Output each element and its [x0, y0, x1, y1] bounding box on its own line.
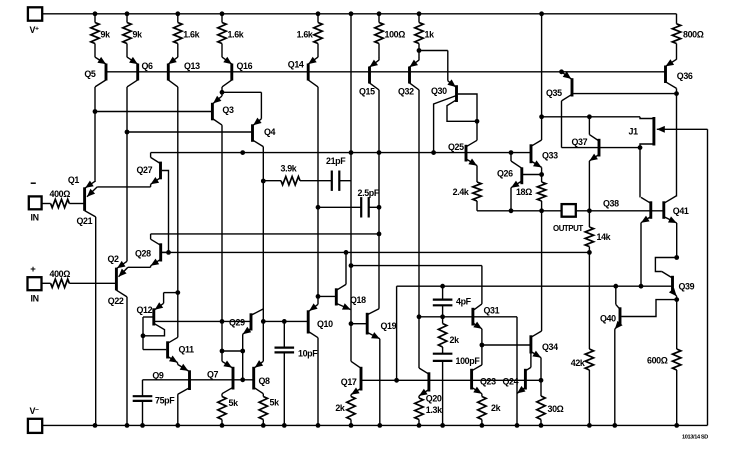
svg-text:Q41: Q41: [673, 206, 689, 216]
svg-text:2.5pF: 2.5pF: [358, 188, 380, 198]
svg-text:Q39: Q39: [679, 282, 695, 292]
svg-text:Q25: Q25: [448, 142, 464, 152]
svg-text:Q10: Q10: [317, 319, 333, 329]
svg-text:2k: 2k: [335, 403, 345, 413]
svg-text:42k: 42k: [571, 358, 585, 368]
svg-text:400Ω: 400Ω: [50, 189, 71, 199]
svg-text:30Ω: 30Ω: [548, 404, 564, 414]
svg-text:Q13: Q13: [184, 61, 200, 71]
svg-text:Q16: Q16: [237, 61, 253, 71]
svg-text:Q38: Q38: [603, 199, 619, 209]
svg-text:1.6k: 1.6k: [183, 30, 199, 40]
svg-text:10pF: 10pF: [298, 349, 318, 359]
svg-text:Q4: Q4: [264, 127, 276, 137]
svg-text:2.4k: 2.4k: [453, 187, 469, 197]
svg-text:75pF: 75pF: [155, 395, 175, 405]
svg-text:2k: 2k: [491, 403, 501, 413]
svg-text:100Ω: 100Ω: [385, 30, 406, 40]
svg-text:Q12: Q12: [137, 305, 153, 315]
svg-text:1.6k: 1.6k: [228, 30, 244, 40]
svg-text:Q9: Q9: [152, 371, 164, 381]
svg-text:+: +: [30, 264, 36, 275]
svg-text:Q35: Q35: [546, 88, 562, 98]
svg-text:18Ω: 18Ω: [516, 187, 532, 197]
svg-text:Q23: Q23: [480, 376, 496, 386]
svg-text:9k: 9k: [101, 30, 111, 40]
svg-text:Q5: Q5: [84, 69, 96, 79]
svg-text:800Ω: 800Ω: [683, 30, 704, 40]
svg-text:2k: 2k: [450, 335, 460, 345]
svg-text:400Ω: 400Ω: [50, 269, 71, 279]
svg-text:Q11: Q11: [179, 344, 195, 354]
svg-text:Q6: Q6: [142, 61, 154, 71]
svg-text:Q1: Q1: [68, 175, 80, 185]
svg-text:Q21: Q21: [77, 216, 93, 226]
svg-text:Q36: Q36: [677, 71, 693, 81]
svg-text:Q37: Q37: [572, 137, 588, 147]
svg-text:IN: IN: [31, 294, 39, 304]
svg-text:Q14: Q14: [288, 59, 304, 69]
svg-text:1.6k: 1.6k: [297, 30, 313, 40]
svg-text:Q15: Q15: [359, 87, 375, 97]
svg-text:1k: 1k: [425, 30, 435, 40]
svg-text:Q33: Q33: [542, 151, 558, 161]
svg-text:Q34: Q34: [542, 342, 558, 352]
svg-text:Q3: Q3: [222, 105, 234, 115]
svg-text:Q8: Q8: [259, 376, 271, 386]
svg-text:21pF: 21pF: [326, 156, 346, 166]
svg-text:3.9k: 3.9k: [281, 164, 297, 174]
svg-text:1.3k: 1.3k: [426, 405, 442, 415]
svg-text:Q7: Q7: [207, 370, 219, 380]
svg-text:9k: 9k: [133, 30, 143, 40]
svg-text:600Ω: 600Ω: [647, 356, 668, 366]
svg-text:4pF: 4pF: [456, 297, 472, 307]
svg-text:5k: 5k: [270, 398, 280, 408]
svg-text:5k: 5k: [229, 398, 239, 408]
svg-text:Q27: Q27: [137, 165, 153, 175]
svg-text:Q22: Q22: [108, 296, 124, 306]
svg-text:Q19: Q19: [381, 321, 397, 331]
svg-text:Q30: Q30: [431, 86, 447, 96]
svg-text:IN: IN: [31, 212, 39, 222]
svg-text:Q29: Q29: [229, 317, 245, 327]
svg-text:OUTPUT: OUTPUT: [553, 224, 583, 233]
svg-text:100pF: 100pF: [456, 356, 481, 366]
svg-text:Q31: Q31: [484, 306, 500, 316]
svg-text:Q2: Q2: [108, 254, 120, 264]
svg-text:Q20: Q20: [426, 394, 442, 404]
svg-text:1013/14 SD: 1013/14 SD: [682, 435, 708, 441]
svg-text:Q17: Q17: [341, 377, 357, 387]
svg-text:J1: J1: [629, 127, 639, 137]
svg-text:14k: 14k: [597, 232, 611, 242]
svg-text:Q28: Q28: [135, 249, 151, 259]
svg-text:Q26: Q26: [497, 169, 513, 179]
svg-text:Q24: Q24: [503, 376, 519, 386]
svg-text:Q40: Q40: [600, 314, 616, 324]
svg-text:Q32: Q32: [398, 87, 414, 97]
svg-text:Q18: Q18: [350, 295, 366, 305]
